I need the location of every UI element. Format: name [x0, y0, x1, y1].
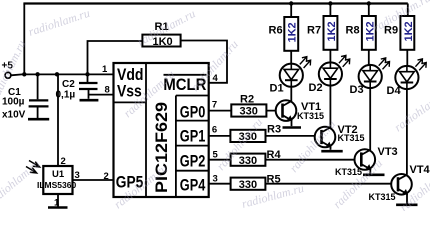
svg-text:7: 7	[212, 100, 217, 111]
resistor R8	[346, 1, 377, 65]
svg-text:100µ: 100µ	[2, 97, 25, 108]
svg-text:330: 330	[239, 179, 257, 191]
MCLR overbar	[164, 74, 207, 76]
svg-text:KT315: KT315	[369, 192, 396, 202]
svg-text:VT3: VT3	[378, 146, 398, 158]
node: +5 terminal	[5, 72, 11, 78]
resistor R6	[269, 1, 299, 63]
svg-text:1K2: 1K2	[403, 21, 415, 41]
svg-text:D2: D2	[309, 82, 323, 94]
svg-text:2: 2	[61, 156, 66, 167]
chip divider left column	[145, 63, 147, 197]
chip line under Vss	[114, 101, 147, 103]
svg-text:D3: D3	[350, 84, 364, 96]
svg-text:330: 330	[239, 155, 257, 167]
svg-text:1K2: 1K2	[326, 21, 338, 41]
svg-text:D1: D1	[270, 83, 284, 95]
LED D3	[350, 58, 390, 96]
wire: Vss pin 8 stub	[89, 94, 114, 96]
ground: VT1 emitter	[283, 126, 302, 129]
resistor R7	[307, 1, 338, 62]
svg-text:R2: R2	[240, 93, 254, 105]
transistor VT3	[335, 88, 398, 177]
chip divider right column	[175, 96, 177, 198]
ground: VT3 emitter	[363, 174, 385, 177]
op-amp U1 IC PIC12F629 chip body	[102, 63, 219, 197]
svg-text:GP2: GP2	[180, 153, 206, 171]
svg-text:GP1: GP1	[180, 128, 206, 146]
svg-text:KT315: KT315	[297, 111, 324, 121]
svg-text:8: 8	[105, 85, 110, 96]
node: junction U1	[55, 72, 59, 76]
LED D2	[309, 55, 350, 94]
node: junction C1	[35, 72, 39, 76]
U1 pin 1 lead	[57, 194, 59, 207]
svg-text:R8: R8	[346, 25, 360, 37]
svg-text:U1: U1	[52, 169, 65, 180]
svg-text:x10V: x10V	[2, 110, 26, 121]
ground: under U1	[48, 206, 68, 209]
wire: left drop from rail to +5 feed	[23, 4, 25, 75]
chip row line under GP0	[176, 120, 209, 122]
svg-text:1K2: 1K2	[287, 22, 299, 42]
ground: VT2 emitter	[321, 150, 342, 153]
chip row line under MCLR	[176, 95, 209, 97]
capacitor C1	[2, 74, 49, 120]
LED D4	[387, 59, 427, 97]
svg-text:R3: R3	[267, 124, 281, 136]
svg-text:ILMS5360: ILMS5360	[37, 180, 76, 190]
transistor VT2	[315, 86, 365, 150]
ground: under C2	[80, 99, 99, 102]
transistor VT1	[276, 87, 324, 126]
ground: VT4 emitter	[396, 204, 417, 207]
transistor VT4	[369, 89, 430, 203]
svg-text:GP0: GP0	[180, 104, 206, 122]
wire: +5 feed to pin 1	[11, 73, 114, 76]
svg-text:C2: C2	[62, 79, 75, 90]
wire: +5V top rail	[23, 2, 407, 4]
svg-text:GP4: GP4	[180, 177, 206, 195]
svg-text:Vdd: Vdd	[117, 66, 144, 84]
LED D1	[270, 57, 311, 95]
resistor R3	[209, 124, 322, 144]
ground: under C1	[28, 118, 49, 121]
svg-text:D4: D4	[387, 85, 402, 97]
resistor R2	[209, 93, 283, 117]
photodetector U1 ILMS5360	[26, 74, 80, 208]
chip row line under GP1	[176, 145, 209, 147]
resistor R5	[209, 174, 398, 191]
svg-text:6: 6	[212, 125, 217, 136]
capacitor C2	[56, 74, 98, 100]
chip row line under GP2	[176, 170, 209, 172]
resistor R1	[88, 21, 228, 83]
U1 IR arrows	[29, 161, 40, 167]
wire: U1 pin3 to GP5	[73, 179, 114, 181]
resistor R9	[384, 4, 415, 67]
svg-text:1: 1	[102, 64, 108, 75]
svg-text:VT4: VT4	[410, 164, 430, 176]
resistor R4	[209, 149, 362, 167]
svg-text:KT315: KT315	[338, 133, 365, 143]
node: junction rail drop	[22, 72, 26, 76]
svg-text:R7: R7	[307, 25, 321, 37]
svg-text:R6: R6	[269, 25, 283, 37]
node: junction Vdd/R1/C2	[85, 72, 89, 76]
